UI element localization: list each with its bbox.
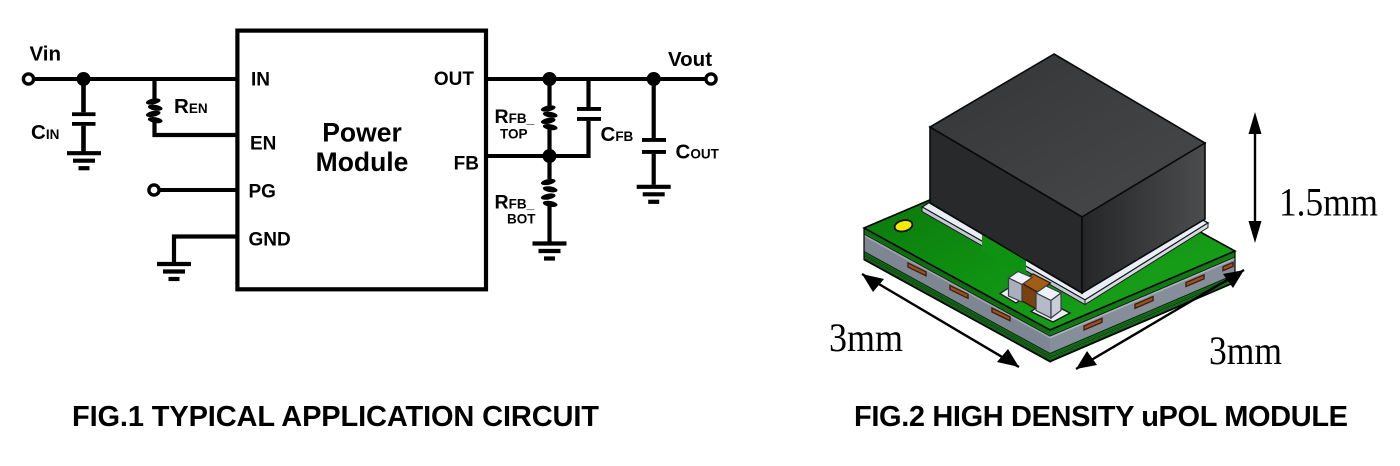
svg-text:3mm: 3mm — [829, 315, 903, 360]
svg-text:RFB_: RFB_ — [495, 192, 535, 214]
capacitor CFB — [577, 107, 601, 121]
copper pad right 2 — [1135, 297, 1153, 309]
IC U1 Power Module box — [237, 31, 486, 290]
substrate base plate top — [922, 128, 1208, 300]
terminal PG — [149, 185, 159, 195]
svg-text:Vout: Vout — [668, 48, 712, 71]
substrate base plate left edge — [922, 207, 1085, 305]
wire REN top branch — [152, 79, 156, 99]
svg-text:OUT: OUT — [434, 69, 475, 90]
svg-text:CIN: CIN — [31, 121, 59, 144]
svg-text:1.5mm: 1.5mm — [1279, 180, 1378, 225]
terminal Vout — [706, 74, 716, 84]
dimension arrow 1.5mm — [1249, 112, 1262, 243]
ground RFB_BOT — [533, 244, 567, 259]
wire RFB_TOP bottom — [547, 129, 551, 156]
resistor REN — [145, 97, 163, 124]
chip capacitor brown body top — [1021, 274, 1051, 293]
copper pad right 1 — [1084, 318, 1102, 330]
PCB side left-front — [864, 228, 1050, 362]
dimension arrow 3mm left — [862, 274, 1019, 367]
wire CIN branch — [81, 79, 86, 112]
copper pad right 3 — [1186, 275, 1204, 287]
ground CIN — [67, 153, 101, 168]
molded block left face — [930, 127, 1082, 293]
node junction OUT/RFB_TOP — [543, 72, 557, 86]
wire COUT bottom — [652, 154, 656, 185]
copper pad right 4 — [1223, 262, 1233, 270]
capacitor CIN — [72, 112, 96, 126]
wire PG — [160, 188, 238, 192]
svg-text:CFB: CFB — [601, 123, 634, 146]
wire OUT to Vout — [486, 77, 706, 81]
copper pad left 2 — [950, 286, 968, 299]
svg-text:Module: Module — [316, 147, 409, 177]
svg-text:TOP: TOP — [500, 127, 528, 142]
PCB side right-front — [1050, 251, 1235, 362]
chip capacitor brown body front — [1021, 283, 1039, 311]
yellow marker dot — [893, 218, 913, 233]
substrate base plate right edge — [1085, 223, 1208, 305]
wire CIN to ground — [81, 126, 86, 152]
svg-text:EN: EN — [250, 134, 276, 155]
svg-text:PG: PG — [249, 182, 276, 203]
resistor RFB_BOT — [540, 178, 558, 208]
molded block right face — [1082, 143, 1205, 293]
svg-text:RFB_: RFB_ — [495, 106, 535, 128]
wire Vin to IN — [34, 77, 237, 81]
chip pad right — [1031, 301, 1070, 322]
svg-text:BOT: BOT — [507, 212, 536, 227]
wire RFB_BOT bottom — [547, 206, 551, 242]
terminal Vin — [23, 74, 33, 84]
svg-text:REN: REN — [174, 95, 208, 118]
svg-text:FIG.1 TYPICAL APPLICATION CIRC: FIG.1 TYPICAL APPLICATION CIRCUIT — [72, 401, 599, 433]
ground COUT — [637, 187, 671, 202]
PCB top face — [864, 149, 1235, 330]
wire REN to EN — [155, 122, 238, 135]
dimension arrow 3mm right — [1076, 270, 1244, 369]
ground GND pin — [157, 264, 191, 279]
PCB bottom rim outline — [864, 228, 1235, 362]
node junction FB — [543, 149, 557, 163]
node junction Vin/CIN — [77, 72, 91, 86]
resistor RFB_TOP — [540, 104, 558, 131]
plate strip gap green patch — [982, 234, 1026, 277]
molded block top — [930, 54, 1205, 217]
CAPTIONS — [72, 401, 1348, 433]
svg-text:Vin: Vin — [30, 43, 62, 66]
chip pad left — [1000, 285, 1030, 304]
svg-text:FB: FB — [454, 154, 479, 175]
svg-text:3mm: 3mm — [1209, 328, 1282, 373]
wire RFB_BOT top — [547, 156, 551, 179]
molded block bottom-left edge — [930, 203, 1082, 293]
svg-text:IN: IN — [251, 70, 270, 91]
chip capacitor left terminal — [1009, 272, 1033, 303]
node junction OUT/COUT — [647, 72, 661, 86]
svg-text:COUT: COUT — [676, 141, 720, 164]
capacitor COUT — [642, 138, 666, 154]
copper pad left 1 — [908, 263, 926, 276]
wire RFB_TOP top — [547, 79, 551, 106]
copper pad left 3 — [992, 308, 1010, 321]
svg-text:GND: GND — [249, 230, 291, 251]
chip capacitor right terminal — [1036, 286, 1061, 318]
wire CFB top — [586, 79, 590, 107]
wire CFB bottom — [586, 121, 590, 158]
svg-text:Power: Power — [322, 118, 402, 148]
svg-text:FIG.2 HIGH DENSITY uPOL MODULE: FIG.2 HIGH DENSITY uPOL MODULE — [854, 401, 1348, 433]
wire FB — [486, 154, 589, 158]
wire GND pin — [174, 237, 237, 263]
wire COUT top — [652, 79, 656, 138]
